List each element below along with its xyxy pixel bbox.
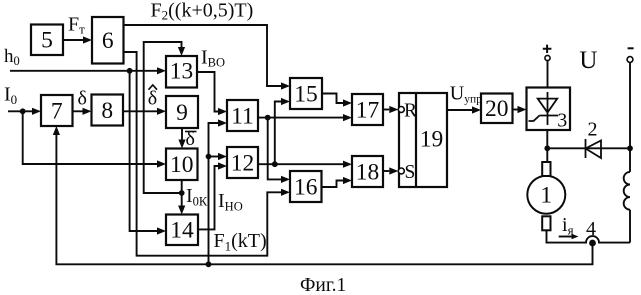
svg-text:14: 14 xyxy=(170,218,194,244)
svg-text:1: 1 xyxy=(540,183,552,209)
svg-text:9: 9 xyxy=(176,100,188,126)
svg-text:12: 12 xyxy=(231,150,255,176)
svg-text:20: 20 xyxy=(485,96,509,122)
svg-text:F1(kT): F1(kT) xyxy=(214,230,267,254)
svg-text:3: 3 xyxy=(557,110,567,132)
svg-text:8: 8 xyxy=(101,98,113,124)
svg-text:17: 17 xyxy=(356,97,380,123)
svg-text:18: 18 xyxy=(356,159,380,185)
svg-text:R: R xyxy=(404,101,417,122)
svg-text:13: 13 xyxy=(170,58,194,84)
svg-text:δ: δ xyxy=(78,88,87,110)
svg-text:Фиг.1: Фиг.1 xyxy=(300,275,346,295)
svg-text:7: 7 xyxy=(51,98,63,124)
svg-text:4: 4 xyxy=(586,218,596,240)
svg-text:δ: δ xyxy=(148,88,157,110)
svg-text:5: 5 xyxy=(41,28,53,54)
svg-text:2: 2 xyxy=(588,119,598,141)
svg-text:19: 19 xyxy=(420,127,444,153)
svg-text:U: U xyxy=(579,47,597,74)
svg-text:16: 16 xyxy=(294,174,318,200)
svg-text:6: 6 xyxy=(102,28,114,54)
svg-text:S: S xyxy=(405,162,416,183)
svg-text:10: 10 xyxy=(170,152,194,178)
svg-text:11: 11 xyxy=(231,103,254,129)
svg-text:15: 15 xyxy=(294,81,318,107)
svg-text:δ: δ xyxy=(186,128,195,150)
